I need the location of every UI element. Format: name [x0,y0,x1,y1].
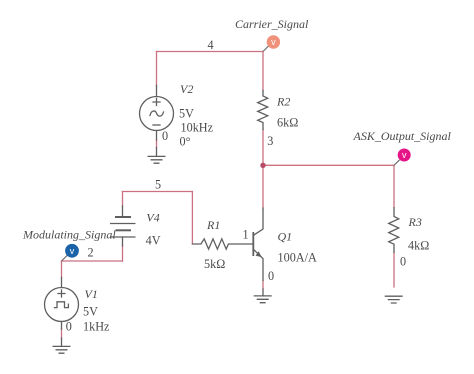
svg-text:6kΩ: 6kΩ [277,115,298,129]
svg-text:1kHz: 1kHz [83,320,110,334]
svg-text:4: 4 [208,38,214,52]
svg-text:V1: V1 [85,287,98,301]
svg-text:0: 0 [66,320,72,334]
svg-text:100A/A: 100A/A [278,251,317,265]
svg-text:v: v [402,150,407,160]
svg-text:Carrier_Signal: Carrier_Signal [235,17,309,31]
svg-text:V4: V4 [146,211,159,225]
svg-text:5kΩ: 5kΩ [204,257,225,271]
svg-text:3: 3 [267,134,273,148]
svg-text:Q1: Q1 [278,229,293,243]
svg-text:0°: 0° [180,134,191,148]
svg-text:5V: 5V [179,106,194,120]
svg-text:4V: 4V [146,234,161,248]
svg-text:V2: V2 [180,82,193,96]
svg-text:R1: R1 [206,218,220,232]
svg-text:4kΩ: 4kΩ [408,239,429,253]
svg-text:ASK_Output_Signal: ASK_Output_Signal [353,129,452,143]
svg-text:Modulating_Signal: Modulating_Signal [22,228,116,242]
svg-text:2: 2 [88,246,94,260]
svg-text:1: 1 [243,228,249,242]
svg-text:R3: R3 [408,215,422,229]
svg-text:5: 5 [155,177,161,191]
svg-text:R2: R2 [276,94,290,108]
svg-text:v: v [271,37,276,47]
svg-text:0: 0 [162,129,168,143]
svg-text:10kHz: 10kHz [181,120,214,134]
svg-text:0: 0 [400,255,406,269]
svg-text:0: 0 [268,269,274,283]
svg-text:5V: 5V [83,305,98,319]
svg-text:v: v [70,246,75,256]
